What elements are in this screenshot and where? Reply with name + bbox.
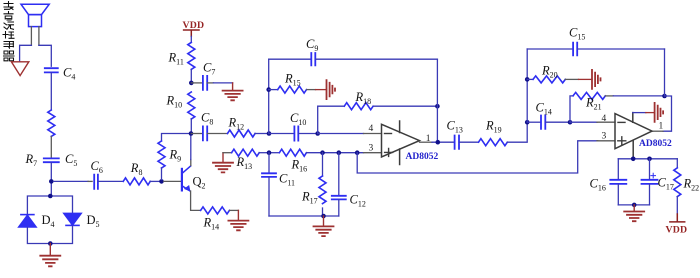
wire: C15 right vertical [664,49,666,96]
wire: emitter down [191,191,201,210]
node diode bottom [48,241,53,246]
wire C5 down to diode box [50,163,52,196]
resistor R11 [188,42,195,69]
node R21/C14/pin4 [568,120,573,125]
wire: pin3 line into op-amp [307,152,364,154]
svg-text:3: 3 [602,132,607,142]
node R15 tap [266,87,271,92]
capacitor C15 (feedback) [527,48,573,50]
resistor R17 [322,153,324,176]
resistor R22 [676,159,678,168]
resistor R7 [48,110,55,136]
wire: op2 output loop [663,96,672,131]
node ground tap [321,214,326,219]
node C15/R21/output loop [662,94,667,99]
ground (stage1) [314,216,334,236]
wire: stage2 left vertical [526,49,528,122]
node op1 output [436,140,441,145]
ground (op2 power, rotated) [646,103,663,122]
svg-text:AD8052: AD8052 [406,152,439,162]
transistor Q2 [182,166,191,191]
wire C6 to R8 [98,180,123,182]
wire: pin4 line into op-amp [318,133,364,135]
wire pin4 into op2 [570,121,597,123]
capacitor C12 [338,153,340,196]
wire R19 to C14 node [507,122,527,142]
node C17 tap [647,157,652,162]
node base [159,179,164,184]
resistor R21 [570,96,573,122]
transducer (speaker symbol) [21,4,49,26]
wire C13 to R19 [459,141,478,143]
svg-text:3: 3 [369,143,374,153]
wire: collector up [190,160,192,166]
ground (C16/C17) [624,205,644,221]
node C11 top [267,150,272,155]
label 超声波换能器 (ultrasonic transducer, drawn glyphs) [3,2,14,61]
node C14 left [525,120,530,125]
wire R12 to C10 node [255,133,269,135]
resistor R14 [201,207,230,214]
capacitor C8 [191,133,202,135]
capacitor C9 (feedback) [269,58,311,60]
capacitor C4 [45,68,58,72]
open triangle terminal (red) [11,62,28,76]
ground (R20, rotated) [579,70,601,89]
svg-text:4: 4 [602,114,607,124]
op-amp U1 AD8052 [382,121,420,165]
node diode top [48,194,53,199]
node R18/C9 right vertical [435,104,440,109]
node bottom ground tap [632,203,637,208]
svg-text:4: 4 [369,124,374,134]
resistor R12 [228,130,256,137]
wire: C16/C17 bottom rail [618,204,649,206]
resistor R18 [318,106,345,133]
wire: C9 left vertical [268,59,270,133]
resistor R8 [123,178,150,185]
ground (diodes) [40,244,60,267]
wire: decoupling rail [618,158,677,160]
node collector/C8 [189,131,194,136]
wire: right vertical to output [436,59,438,142]
resistor R20 [527,78,533,80]
ground (R15, rotated) [316,80,336,99]
wire: op2 power to rotated ground [633,112,646,114]
node C12 top [337,150,342,155]
svg-text:VDD: VDD [666,225,688,236]
wire: diode box top rail [27,196,72,214]
node R18 tap [315,131,320,136]
svg-text:1: 1 [659,121,664,131]
svg-text:AD8052: AD8052 [639,139,672,149]
node C10 left / C9 vertical [267,131,272,136]
resistor R13 [223,152,232,154]
wire: long rail to stage 2 pin3 [357,141,598,173]
node R17 top [320,150,325,155]
wire: transducer right lead [38,27,40,46]
wire: stage1 bottom rail [269,215,339,217]
node pin3 branch to second stage [355,150,360,155]
diode D5 [64,213,81,225]
capacitor C17 (polarized) [649,159,651,180]
wire: diode box bottom rail [27,226,72,244]
capacitor C10 [269,133,294,135]
resistor R10 [188,92,195,119]
wire: base lead [164,180,181,182]
diode D4 [19,215,36,227]
node power stub / rail [631,157,636,162]
capacitor C6 [54,180,89,182]
capacitor C16 [617,159,619,180]
wire: transducer left lead [30,27,32,46]
wire R7 to C5 [50,136,52,158]
node R11/C7/R10 [189,81,194,86]
capacitor C5 [44,158,59,162]
capacitor C14 [527,121,541,123]
wire R8 to base node [150,180,161,182]
op-amp U2 AD8052 [615,113,652,159]
VDD power symbol (bottom, inverted) [670,214,685,222]
resistor R9 (base-collector feedback) [162,134,192,142]
capacitor C11 [268,153,270,173]
wire C4 to R7 [50,73,52,110]
resistor R19 [479,139,508,146]
node R20 tap [525,77,530,82]
ground (R14) [228,210,248,230]
ground (R13 left) [213,153,233,173]
node: C5/C6/diode junction [49,179,54,184]
wire: op1 output [420,141,433,143]
resistor R15 [269,89,278,91]
resistor R16 [269,152,279,154]
ground (C7) [223,83,243,100]
capacitor C7 [191,82,202,84]
capacitor C13 [455,136,459,149]
